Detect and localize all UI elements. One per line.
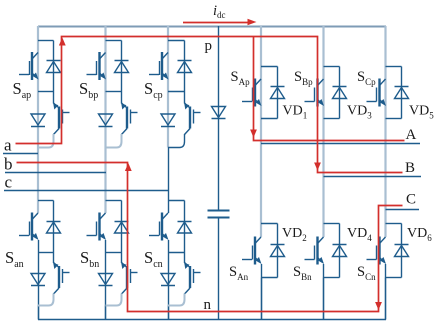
wire red return arrow up at Sbn <box>125 163 132 171</box>
wire red path branch through SAp to output A <box>254 37 405 141</box>
switch SAp label <box>231 69 251 87</box>
diode Sap upper antiparallel diode <box>47 61 61 73</box>
switch Scn label <box>144 248 163 270</box>
wire p rail (top dc bus) <box>38 26 386 28</box>
switch SBn label <box>293 264 312 282</box>
switch San label <box>5 248 24 270</box>
switch Sbp label <box>79 79 98 101</box>
node n label <box>204 297 212 313</box>
switch Sbn cell frame <box>106 201 122 264</box>
node C label <box>406 192 416 208</box>
transistor Sbn lower IGBT <box>121 263 137 295</box>
svg-text:b: b <box>4 155 13 174</box>
diode Sbp lower series diode <box>99 114 113 127</box>
switch Sap label <box>13 79 32 101</box>
wire red path arrow down at SAp <box>250 130 257 138</box>
transistor Sap lower IGBT <box>53 103 69 135</box>
diode VD6 antiparallel diode <box>395 245 409 257</box>
switch SBp label <box>294 69 313 87</box>
transistor San lower IGBT <box>53 263 69 295</box>
wire input a <box>3 153 38 155</box>
switch Scn cell frame <box>168 201 185 264</box>
diode Scn lower series diode <box>161 274 175 286</box>
transistor SCp IGBT <box>367 79 387 107</box>
transistor Scp upper IGBT <box>149 52 169 80</box>
transistor SCn IGBT <box>367 237 387 265</box>
wire output B <box>324 176 422 178</box>
transistor SAp IGBT <box>242 79 262 107</box>
svg-text:p: p <box>205 38 213 54</box>
diode VD5 label <box>409 104 434 121</box>
diode VD4 antiparallel diode <box>333 245 347 257</box>
wire Sbp cell bottom return <box>106 134 122 148</box>
diode Scp lower series diode <box>161 114 175 127</box>
wire input c <box>4 190 168 192</box>
wire Sap cell bottom return <box>38 134 54 148</box>
diode VD1 antiparallel diode <box>271 87 285 99</box>
switch SBp cell frame <box>324 67 340 119</box>
diode VD6 label <box>407 226 432 243</box>
node i_dc current label <box>213 3 226 20</box>
diode VD1 label <box>283 104 308 121</box>
transistor SBp IGBT <box>305 79 325 107</box>
switch Sbn label <box>80 248 99 270</box>
diode VD5 antiparallel diode <box>395 87 409 99</box>
wire i_dc arrow <box>183 19 257 25</box>
wire Scn cell bottom return <box>168 294 185 306</box>
switch Sbp cell frame <box>106 41 122 104</box>
capacitor dc-link capacitor <box>208 211 230 218</box>
transistor SAn IGBT <box>242 237 262 265</box>
switch Scp cell frame <box>168 41 185 104</box>
switch SCp label <box>357 69 376 87</box>
switch SAn label <box>229 264 249 282</box>
node B label <box>405 160 415 176</box>
switch SBn cell frame <box>324 224 340 278</box>
wire red return arrow down at SCn <box>375 302 382 310</box>
svg-text:C: C <box>406 192 416 208</box>
svg-text:c: c <box>5 173 13 192</box>
wire Scp cell bottom return <box>168 134 185 148</box>
svg-text:n: n <box>204 297 212 313</box>
node a label <box>4 135 12 154</box>
diode VD3 antiparallel diode <box>333 87 347 99</box>
wire input b <box>5 172 106 174</box>
wire leg phase c <box>167 26 170 320</box>
diode VD4 label <box>347 226 372 243</box>
switch Scp label <box>144 79 163 101</box>
wire leg phase b <box>104 26 106 320</box>
diode clamp diode <box>212 107 226 119</box>
diode Sbn upper antiparallel diode <box>115 222 129 234</box>
wire output A <box>261 143 420 145</box>
svg-text:A: A <box>406 127 417 143</box>
diode Sbn lower series diode <box>99 274 113 286</box>
diode Sbp upper antiparallel diode <box>115 61 129 73</box>
transistor SBn IGBT <box>305 237 325 265</box>
transistor Sbn upper IGBT <box>87 213 107 241</box>
transistor Scp lower IGBT <box>184 103 200 135</box>
diode Sap lower series diode <box>31 114 45 127</box>
wire clamp branch lower <box>218 218 220 320</box>
switch San cell frame <box>38 201 54 264</box>
wire Sbn cell bottom return <box>106 294 122 306</box>
wire red path a to p rail and to outputs A/B <box>16 37 403 173</box>
switch SAn cell frame <box>261 224 278 278</box>
node A label <box>406 127 417 143</box>
transistor Scn lower IGBT <box>184 263 200 295</box>
node b label <box>4 155 13 174</box>
transistor Sbp upper IGBT <box>87 52 107 80</box>
wire output C <box>386 209 420 211</box>
diode VD3 label <box>347 104 372 121</box>
transistor Scn upper IGBT <box>149 213 169 241</box>
switch Sap cell frame <box>38 41 54 104</box>
switch SAp cell frame <box>261 67 278 119</box>
wire leg phase B <box>322 26 324 320</box>
svg-text:B: B <box>405 160 415 176</box>
transistor Sap upper IGBT <box>19 52 39 80</box>
wire San cell bottom return <box>38 294 54 306</box>
wire leg phase a <box>37 26 40 320</box>
diode VD2 label <box>282 226 307 243</box>
transistor Sbp lower IGBT <box>121 103 137 135</box>
transistor San upper IGBT <box>19 213 39 241</box>
switch SCp cell frame <box>386 67 402 119</box>
wire leg phase C <box>384 26 386 320</box>
wire red return path C to b <box>17 163 403 312</box>
diode San upper antiparallel diode <box>47 222 61 234</box>
diode VD2 antiparallel diode <box>271 245 285 257</box>
wire red path arrow down at SBp <box>314 163 321 171</box>
switch SCn cell frame <box>386 224 402 278</box>
diode San lower series diode <box>31 274 45 286</box>
switch SCn label <box>357 264 376 282</box>
node c label <box>5 173 13 192</box>
wire clamp branch upper <box>218 26 220 210</box>
wire leg phase A <box>260 26 263 320</box>
diode Scp upper antiparallel diode <box>178 61 192 73</box>
svg-text:a: a <box>4 135 12 154</box>
diode Scn upper antiparallel diode <box>178 222 192 234</box>
node p label <box>205 38 213 54</box>
wire red path arrow up at Sap <box>59 38 66 46</box>
wire n rail (bottom dc bus) <box>38 319 386 321</box>
